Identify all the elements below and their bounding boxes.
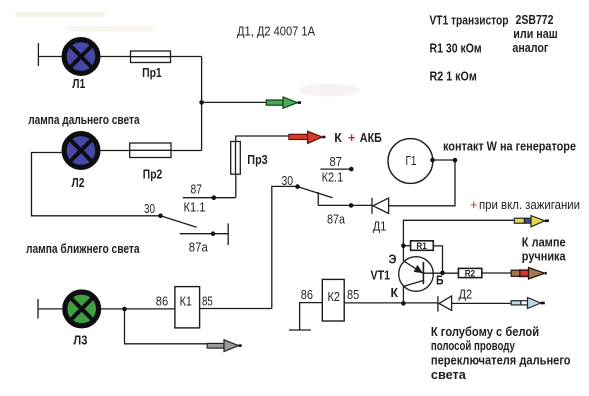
svg-text:ручника: ручника	[522, 249, 566, 264]
svg-text:К1.1: К1.1	[184, 200, 206, 214]
svg-text:Л1: Л1	[72, 76, 85, 91]
svg-text:Д1, Д2 4007 1А: Д1, Д2 4007 1А	[237, 25, 316, 39]
svg-text:R2 1 кОм: R2 1 кОм	[430, 68, 477, 83]
svg-text:Пр2: Пр2	[143, 167, 162, 182]
svg-text:2SB772: 2SB772	[516, 12, 554, 27]
svg-text:Л3: Л3	[73, 333, 87, 348]
svg-text:Пр3: Пр3	[247, 152, 267, 167]
svg-text:Д2: Д2	[459, 288, 473, 302]
svg-text:87а: 87а	[189, 241, 208, 255]
svg-text:или наш: или наш	[513, 26, 557, 41]
svg-text:при вкл. зажигании: при вкл. зажигании	[479, 198, 580, 212]
svg-text:R2: R2	[465, 269, 475, 280]
svg-text:+: +	[470, 198, 478, 212]
svg-text:86: 86	[156, 294, 168, 308]
svg-text:VT1 транзистор: VT1 транзистор	[430, 12, 509, 27]
svg-text:К2: К2	[328, 290, 341, 304]
svg-text:аналог: аналог	[512, 40, 548, 55]
svg-text:85: 85	[347, 288, 359, 302]
svg-text:Г1: Г1	[406, 154, 417, 168]
svg-text:переключателя дальнего: переключателя дальнего	[431, 353, 571, 368]
svg-text:лампа дальнего света: лампа дальнего света	[28, 112, 140, 127]
svg-text:К2.1: К2.1	[322, 171, 344, 185]
svg-text:87: 87	[191, 183, 203, 197]
svg-text:Д1: Д1	[373, 220, 387, 234]
svg-text:лампа ближнего света: лампа ближнего света	[26, 241, 140, 256]
svg-text:30: 30	[282, 174, 294, 188]
svg-text:К голубому с белой: К голубому с белой	[431, 324, 539, 339]
svg-text:R1: R1	[416, 241, 427, 252]
svg-text:полосой проводу: полосой проводу	[431, 338, 516, 353]
svg-text:К1: К1	[180, 295, 192, 309]
svg-text:К лампе: К лампе	[522, 234, 566, 249]
svg-text:Л2: Л2	[72, 175, 85, 190]
svg-text:87: 87	[330, 155, 343, 169]
svg-text:VT1: VT1	[371, 268, 391, 283]
svg-text:К: К	[391, 285, 399, 300]
svg-text:света: света	[431, 367, 467, 382]
svg-text:Пр1: Пр1	[142, 65, 162, 80]
svg-text:30: 30	[144, 202, 155, 216]
svg-text:контакт W на генераторе: контакт W на генераторе	[443, 138, 576, 153]
svg-text:85: 85	[202, 294, 213, 308]
svg-text:87а: 87а	[327, 213, 345, 227]
svg-text:К: К	[334, 130, 342, 145]
svg-text:R1 30 кОм: R1 30 кОм	[430, 41, 482, 56]
svg-text:Б: Б	[436, 273, 444, 288]
svg-text:+: +	[348, 130, 356, 145]
svg-text:Э: Э	[389, 252, 397, 267]
svg-text:АКБ: АКБ	[360, 130, 382, 145]
svg-text:86: 86	[301, 288, 313, 302]
